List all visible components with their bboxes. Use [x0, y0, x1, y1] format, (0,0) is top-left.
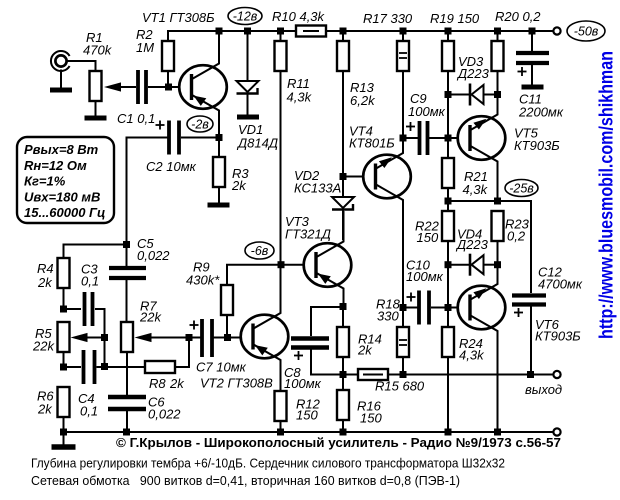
node -25v label	[505, 180, 538, 197]
wire R4 to junction	[63, 288, 65, 309]
node C11 on rail	[529, 28, 536, 35]
transistor VT2	[241, 265, 289, 391]
resistor R19	[442, 41, 454, 71]
capacitor C2	[169, 121, 179, 155]
svg-text:2k: 2k	[357, 343, 373, 358]
capacitor C6	[108, 397, 146, 409]
terminal output common	[553, 428, 560, 435]
svg-text:-25в: -25в	[509, 181, 534, 195]
svg-text:430k*: 430k*	[186, 273, 220, 288]
diode VD4	[470, 254, 484, 276]
wire VT3 emitter to C8	[311, 307, 343, 336]
wire -25v node to C12	[448, 201, 531, 293]
input connector X1	[51, 51, 70, 71]
svg-text:Д814Д: Д814Д	[236, 136, 278, 151]
node C7 left junction	[186, 334, 193, 341]
resistor R20	[492, 41, 504, 71]
svg-text:470k: 470k	[83, 43, 113, 58]
node -6v label	[245, 242, 274, 259]
node R17 on rail	[400, 28, 407, 35]
node R18 top junction	[400, 304, 407, 311]
node VT4 base junction	[340, 173, 347, 180]
wire R3 to ground	[218, 187, 220, 203]
capacitor C11 stem top	[531, 31, 533, 52]
node C4 right junction	[101, 363, 108, 370]
svg-text:Глубина регулировки тембра +6/: Глубина регулировки тембра +6/-10дБ. Сер…	[31, 456, 505, 471]
wire R6 to ground rail	[63, 417, 65, 432]
resistor R10	[296, 26, 326, 37]
svg-text:150: 150	[417, 230, 439, 245]
svg-text:Uвх=180 мВ: Uвх=180 мВ	[24, 189, 100, 204]
resistor R15	[358, 369, 388, 380]
capacitor C9 plus	[406, 122, 415, 131]
svg-text:150: 150	[360, 411, 382, 426]
wire R20 to VD3 right node	[497, 71, 499, 95]
svg-text:-50в: -50в	[574, 24, 599, 38]
wire VT2 base	[228, 337, 241, 339]
wire feedback column to C5	[126, 245, 128, 267]
transistor VT5	[458, 95, 506, 202]
svg-text:Рвых=8 Вт: Рвых=8 Вт	[24, 142, 99, 157]
svg-text:2200мк: 2200мк	[518, 105, 564, 120]
wire rail to VD1	[247, 31, 249, 81]
node VD4 right junction	[494, 261, 501, 268]
ground input	[50, 88, 72, 93]
node C12 output junction	[527, 371, 534, 378]
wire VT6 base	[448, 307, 458, 309]
power marks R18	[399, 339, 407, 341]
wire R14 to output line	[342, 357, 344, 375]
node VD3 right junction	[494, 91, 501, 98]
power mark R10	[303, 30, 319, 32]
node VT6 collector ground junction	[494, 429, 501, 436]
node C9 right junction / VT5 base	[445, 135, 452, 142]
wire R12 to ground rail	[280, 421, 282, 432]
node R19 on rail	[445, 28, 452, 35]
power mark R15	[363, 374, 383, 376]
wire R21 to -25v node	[447, 188, 449, 211]
svg-text:C2 10мк: C2 10мк	[146, 159, 197, 174]
resistor R2	[162, 41, 174, 71]
diode VD1 zener	[237, 81, 259, 94]
capacitor C3	[85, 292, 93, 326]
node R13 on rail	[340, 28, 347, 35]
resistor R11	[275, 41, 287, 71]
wire C1 to VT1 base node	[148, 86, 179, 88]
svg-text:© Г.Крылов - Широкополосный ус: © Г.Крылов - Широкополосный усилитель - …	[116, 435, 561, 450]
capacitor C11 plus	[518, 67, 527, 76]
arrow R7 wiper	[135, 333, 152, 342]
resistor R13	[337, 41, 349, 71]
node R4 bottom junction	[60, 306, 67, 313]
wire R24 to ground rail	[447, 357, 449, 432]
power marks R17	[399, 52, 407, 54]
svg-text:100мк: 100мк	[408, 104, 446, 119]
svg-text:ГТ321Д: ГТ321Д	[285, 227, 331, 242]
transistor VT3	[304, 211, 352, 307]
node R16 ground junction	[340, 429, 347, 436]
arrow R1 wiper	[104, 82, 121, 91]
transistor VT1	[179, 31, 227, 138]
svg-text:КТ903Б: КТ903Б	[535, 329, 581, 344]
wire R17 top to rail	[402, 31, 404, 41]
wire input to R1	[67, 61, 96, 71]
wire C12 to output line	[530, 305, 532, 375]
wire junction to C4	[64, 366, 82, 368]
wire VD3 right	[484, 94, 498, 96]
node VT3 emitter junction	[340, 303, 347, 310]
capacitor C10	[419, 291, 429, 325]
svg-text:R4: R4	[37, 261, 54, 276]
svg-text:100мк: 100мк	[284, 376, 322, 391]
node R21 bottom junction	[445, 198, 452, 205]
wire R19 down through VD3 and C9 nodes to R21	[447, 71, 449, 158]
node VT2 base junction	[224, 334, 231, 341]
wire top -12v/-50v supply rail	[168, 30, 296, 32]
svg-text:Кг=1%: Кг=1%	[24, 174, 66, 189]
resistor R16	[337, 390, 349, 420]
resistor R7 potentiometer	[121, 322, 133, 352]
capacitor C7 plus	[190, 321, 199, 330]
wire R5 to junction	[63, 352, 65, 367]
terminal -50v supply	[553, 27, 560, 34]
node VT1 collector on rail	[216, 28, 223, 35]
resistor R14	[337, 327, 349, 357]
node VT5 collector junction	[494, 198, 501, 205]
wire R17 to C9 node	[402, 71, 404, 138]
wire VD4 node down to VT6 base node	[447, 265, 449, 308]
svg-text:Rн=12 Ом: Rн=12 Ом	[24, 158, 87, 173]
svg-text:150: 150	[296, 408, 318, 423]
resistor R23	[492, 211, 504, 241]
wire R9 bottom to VT2 base node	[226, 315, 228, 338]
wire R2 bottom to base node	[167, 71, 169, 87]
node -50v supply label	[567, 21, 605, 41]
capacitor C1	[138, 70, 146, 104]
svg-text:1M: 1M	[136, 40, 154, 55]
wire VT3 base node	[281, 264, 304, 266]
wire C9 left	[403, 137, 418, 139]
capacitor C9	[420, 121, 428, 155]
svg-text:2k: 2k	[37, 402, 53, 417]
capacitor C12	[512, 296, 546, 305]
node main ground junction	[60, 429, 67, 436]
node -12v supply label	[228, 8, 262, 25]
transistor VT6	[458, 265, 506, 432]
wire base node to VD2	[342, 180, 344, 197]
svg-text:C7 10мк: C7 10мк	[196, 360, 247, 375]
capacitor C8 plus	[294, 351, 303, 360]
resistor R12	[275, 391, 287, 421]
capacitor C10 plus	[407, 293, 416, 302]
wire VD4 left	[448, 264, 469, 266]
node C10 right junction / VT6 base	[445, 304, 452, 311]
arrow R5 wiper	[71, 333, 88, 342]
wire C10 left	[403, 307, 418, 309]
capacitor C12 plus	[514, 308, 523, 317]
node C5 top junction	[123, 241, 130, 248]
resistor R1 potentiometer	[90, 71, 102, 101]
resistor R5 potentiometer	[58, 322, 70, 352]
wire C2 left to feedback column	[127, 138, 169, 245]
wire ground stem	[63, 432, 65, 445]
wire C6 to ground rail	[126, 409, 128, 432]
node C6 ground junction	[123, 429, 130, 436]
wire R1 to ground	[95, 101, 97, 116]
node C9 left junction	[400, 135, 407, 142]
node R5 wiper junction	[101, 334, 108, 341]
svg-text:2k: 2k	[169, 376, 185, 391]
svg-text:выход: выход	[525, 382, 562, 397]
wire R5 wiper	[87, 337, 105, 339]
capacitor C2 plus	[156, 121, 165, 130]
wire C11 to ground	[531, 63, 533, 85]
wire R2 top to rail	[167, 30, 169, 41]
wire R20 top to rail	[497, 31, 499, 41]
diode VD3	[470, 84, 484, 106]
ground R1	[85, 116, 107, 121]
svg-text:R8: R8	[149, 376, 166, 391]
diode VD2 zener	[332, 197, 354, 210]
capacitor C8	[291, 339, 329, 348]
svg-text:VT2 ГТ308В: VT2 ГТ308В	[200, 376, 273, 391]
wire R8 to C7 node	[175, 338, 189, 368]
wire R13 to VT4 base node	[342, 71, 344, 177]
svg-text:4,3k: 4,3k	[463, 182, 489, 197]
node VD4 left junction	[445, 261, 452, 268]
wire R13 top to rail	[342, 31, 344, 41]
svg-text:КТ801Б: КТ801Б	[349, 136, 395, 151]
svg-text:R15 680: R15 680	[375, 379, 425, 394]
svg-text:330: 330	[377, 309, 399, 324]
svg-text:4,3k: 4,3k	[459, 348, 485, 363]
wire R16 to ground rail	[342, 420, 344, 432]
svg-text:-6в: -6в	[251, 244, 269, 258]
wire R11 to VT3 base node	[280, 71, 282, 265]
capacitor C5	[109, 268, 146, 278]
wire R22 to VD4 left node	[447, 241, 449, 265]
svg-text:0,1: 0,1	[80, 404, 98, 419]
node VT1 base junction	[165, 84, 172, 91]
wire C7 right	[212, 337, 228, 339]
capacitor C7	[202, 319, 212, 357]
ground C11	[522, 85, 544, 90]
svg-text:22k: 22k	[139, 310, 162, 325]
wire C4 to R8	[97, 366, 146, 368]
wire C5 to R7	[126, 280, 128, 322]
wire VD2 to VT3 collector	[342, 210, 344, 241]
svg-text:C1 0,1: C1 0,1	[117, 111, 155, 126]
svg-text:4,3k: 4,3k	[287, 90, 313, 105]
ground VD1	[237, 115, 259, 120]
wire R1 wiper to C1	[120, 86, 136, 88]
node R11 on rail	[277, 28, 284, 35]
resistor R4	[58, 258, 70, 288]
ground R3	[208, 203, 230, 208]
wire ground rail	[64, 431, 554, 433]
node R15 right junction	[400, 371, 407, 378]
resistor R8	[145, 361, 175, 373]
svg-text:0,022: 0,022	[137, 248, 170, 263]
wire R7 wiper to C7 node	[151, 337, 189, 339]
svg-text:-2в: -2в	[191, 117, 209, 131]
wire R9 top to base node	[227, 265, 281, 285]
svg-text:0,1: 0,1	[81, 274, 99, 289]
transistor VT4	[363, 138, 411, 308]
capacitor C4	[84, 350, 95, 384]
svg-text:4700мк: 4700мк	[538, 277, 583, 292]
wire C5 node to R4	[64, 245, 127, 259]
node R20 on rail	[494, 28, 501, 35]
svg-text:-12в: -12в	[233, 9, 258, 23]
terminal output	[553, 371, 560, 378]
wire VD3 left	[448, 94, 469, 96]
svg-text:КС133А: КС133А	[294, 181, 341, 196]
wire C8 to output line	[311, 348, 343, 375]
resistor R22	[442, 211, 454, 241]
resistor R18	[397, 327, 409, 357]
wire VT4 base	[343, 176, 364, 178]
wire input connector ground stem	[60, 70, 62, 89]
svg-text:0,022: 0,022	[148, 407, 181, 422]
svg-text:R10 4,3k: R10 4,3k	[272, 9, 326, 24]
node VD1 on rail	[244, 28, 251, 35]
resistor R17	[397, 41, 409, 71]
svg-text:100мк: 100мк	[406, 269, 444, 284]
wire junction to C3	[64, 308, 82, 310]
svg-text:15...60000 Гц: 15...60000 Гц	[24, 205, 105, 220]
wire R24 top	[447, 308, 449, 328]
wire R11 top to rail	[280, 31, 282, 41]
node -2v label	[187, 116, 213, 132]
svg-text:2k: 2k	[231, 178, 247, 193]
svg-text:VT1 ГТ308Б: VT1 ГТ308Б	[142, 10, 215, 25]
node R12 ground junction	[277, 429, 284, 436]
resistor R24	[442, 327, 454, 357]
node VT1 emitter junction	[216, 134, 223, 141]
wire VD4 right	[484, 264, 498, 266]
wire R18 to output line	[402, 357, 404, 375]
wire R18 top	[402, 308, 404, 328]
resistor R21	[442, 158, 454, 188]
svg-text:http://www.bluesmobil.com/shik: http://www.bluesmobil.com/shikhman	[597, 51, 618, 339]
spec box	[17, 137, 114, 223]
resistor R3	[213, 157, 225, 187]
node VT3 base junction	[278, 261, 285, 268]
node R5 bottom junction	[60, 364, 67, 371]
wire VT3 emitter node to R14	[342, 307, 344, 328]
wire VD1 to ground	[247, 94, 249, 116]
svg-text:Сетевая обмотка 900 витков d: Сетевая обмотка 900 витков d=0,41, втори…	[31, 473, 460, 488]
resistor R6	[58, 387, 70, 417]
resistor R9	[221, 285, 233, 315]
svg-text:R17 330: R17 330	[363, 11, 413, 26]
svg-text:R20 0,2: R20 0,2	[495, 9, 541, 24]
node R24 ground junction	[445, 429, 452, 436]
wire C10 right	[431, 307, 448, 309]
wire C2 right to emitter node	[181, 137, 216, 139]
svg-text:6,2k: 6,2k	[350, 93, 376, 108]
wire R16 top	[342, 375, 344, 391]
svg-text:R19 150: R19 150	[430, 11, 480, 26]
svg-text:0,2: 0,2	[507, 229, 526, 244]
wire C9 right	[429, 137, 448, 139]
svg-text:КТ903Б: КТ903Б	[514, 138, 560, 153]
svg-text:Д223: Д223	[455, 237, 489, 252]
wire R23 to VD4 right node	[497, 241, 499, 265]
svg-text:2k: 2k	[37, 275, 53, 290]
svg-text:22k: 22k	[32, 339, 55, 354]
wire R19 top to rail	[447, 31, 449, 41]
wire output line	[343, 374, 358, 376]
ground main	[52, 444, 76, 450]
svg-text:Д223: Д223	[456, 66, 490, 81]
wire R7 to C6	[126, 352, 128, 395]
wire emitter node to R3	[218, 138, 220, 158]
capacitor C11	[516, 53, 549, 63]
wire C3 to corner column	[95, 309, 105, 367]
node VD3 left junction	[445, 91, 452, 98]
wire VT5 base	[448, 137, 458, 139]
wire C7 left	[189, 337, 202, 339]
node R14 bottom junction	[340, 371, 347, 378]
